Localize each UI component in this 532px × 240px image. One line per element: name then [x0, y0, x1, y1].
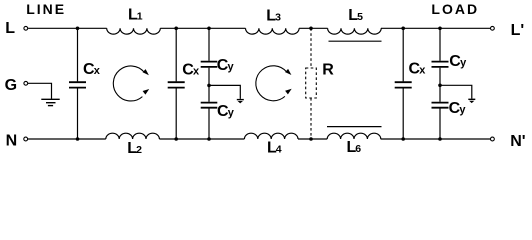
node top wire at Cx1 — [76, 27, 80, 31]
ground (right Cy midpoint earth) — [440, 85, 475, 103]
wire bottom right segment — [381, 138, 491, 140]
capacitor Cy upper right — [432, 28, 468, 85]
node bottom wire at Cx2 — [174, 137, 178, 141]
terminal N — [6, 132, 28, 149]
wire bottom N-line left segment — [28, 138, 106, 140]
svg-text:L': L' — [511, 22, 525, 39]
svg-text:LINE: LINE — [26, 1, 66, 17]
svg-text:N: N — [6, 132, 18, 149]
terminal N' — [491, 133, 526, 150]
svg-text:G: G — [5, 77, 17, 94]
svg-text:R: R — [322, 62, 334, 79]
terminal L' — [491, 22, 525, 39]
inductor L5 — [328, 7, 382, 34]
svg-text:N': N' — [510, 133, 525, 150]
capacitor Cx third (load side) — [395, 28, 427, 139]
inductor L3 — [246, 8, 300, 34]
node bottom wire at Cx1 — [76, 137, 80, 141]
terminal G — [5, 77, 28, 94]
resistor R (dashed, optional bleeder) — [306, 28, 335, 139]
circulating current arrow 2 — [256, 66, 292, 101]
ground (middle Cy midpoint earth) — [209, 85, 244, 103]
node top wire at Cx2 — [174, 27, 178, 31]
capacitor Cy lower right — [432, 85, 467, 139]
ground (G terminal earth) — [28, 83, 60, 105]
core line of choke L6 — [327, 126, 382, 128]
node bottom wire at Cx3 — [401, 137, 405, 141]
svg-text:L: L — [5, 20, 15, 37]
node bottom wire at Cy middle — [207, 137, 211, 141]
capacitor Cy lower middle — [201, 85, 235, 139]
node bottom wire at Cy right — [438, 137, 442, 141]
capacitor Cx first (line side) — [69, 28, 101, 139]
wire top right segment — [381, 27, 490, 29]
capacitor Cy upper middle — [201, 28, 235, 85]
node top wire at Cx3 — [401, 27, 405, 31]
node bottom wire at R — [309, 137, 313, 141]
wire bottom between L4 and L6 — [298, 138, 327, 140]
svg-text:LOAD: LOAD — [431, 1, 479, 17]
node midpoint of middle Cy pair — [207, 84, 211, 88]
inductor L1 — [107, 7, 161, 35]
capacitor Cx second — [168, 28, 200, 139]
wire top L-line left segment — [28, 27, 107, 29]
wire top between L1 and L3 — [160, 27, 245, 29]
circulating current arrow 1 — [113, 66, 149, 101]
inductor L2 — [106, 133, 160, 157]
node top wire at Cy right — [438, 27, 442, 31]
node top wire at R — [309, 27, 313, 31]
inductor L6 — [327, 133, 381, 156]
inductor L4 — [244, 133, 298, 156]
wire top between L3 and L5 — [299, 27, 328, 29]
terminal L — [5, 20, 28, 37]
core line of choke L5 — [329, 40, 382, 42]
node top wire at Cy middle — [207, 27, 211, 31]
wire bottom between L2 and L4 — [159, 138, 244, 140]
node midpoint of right Cy pair — [438, 84, 442, 88]
